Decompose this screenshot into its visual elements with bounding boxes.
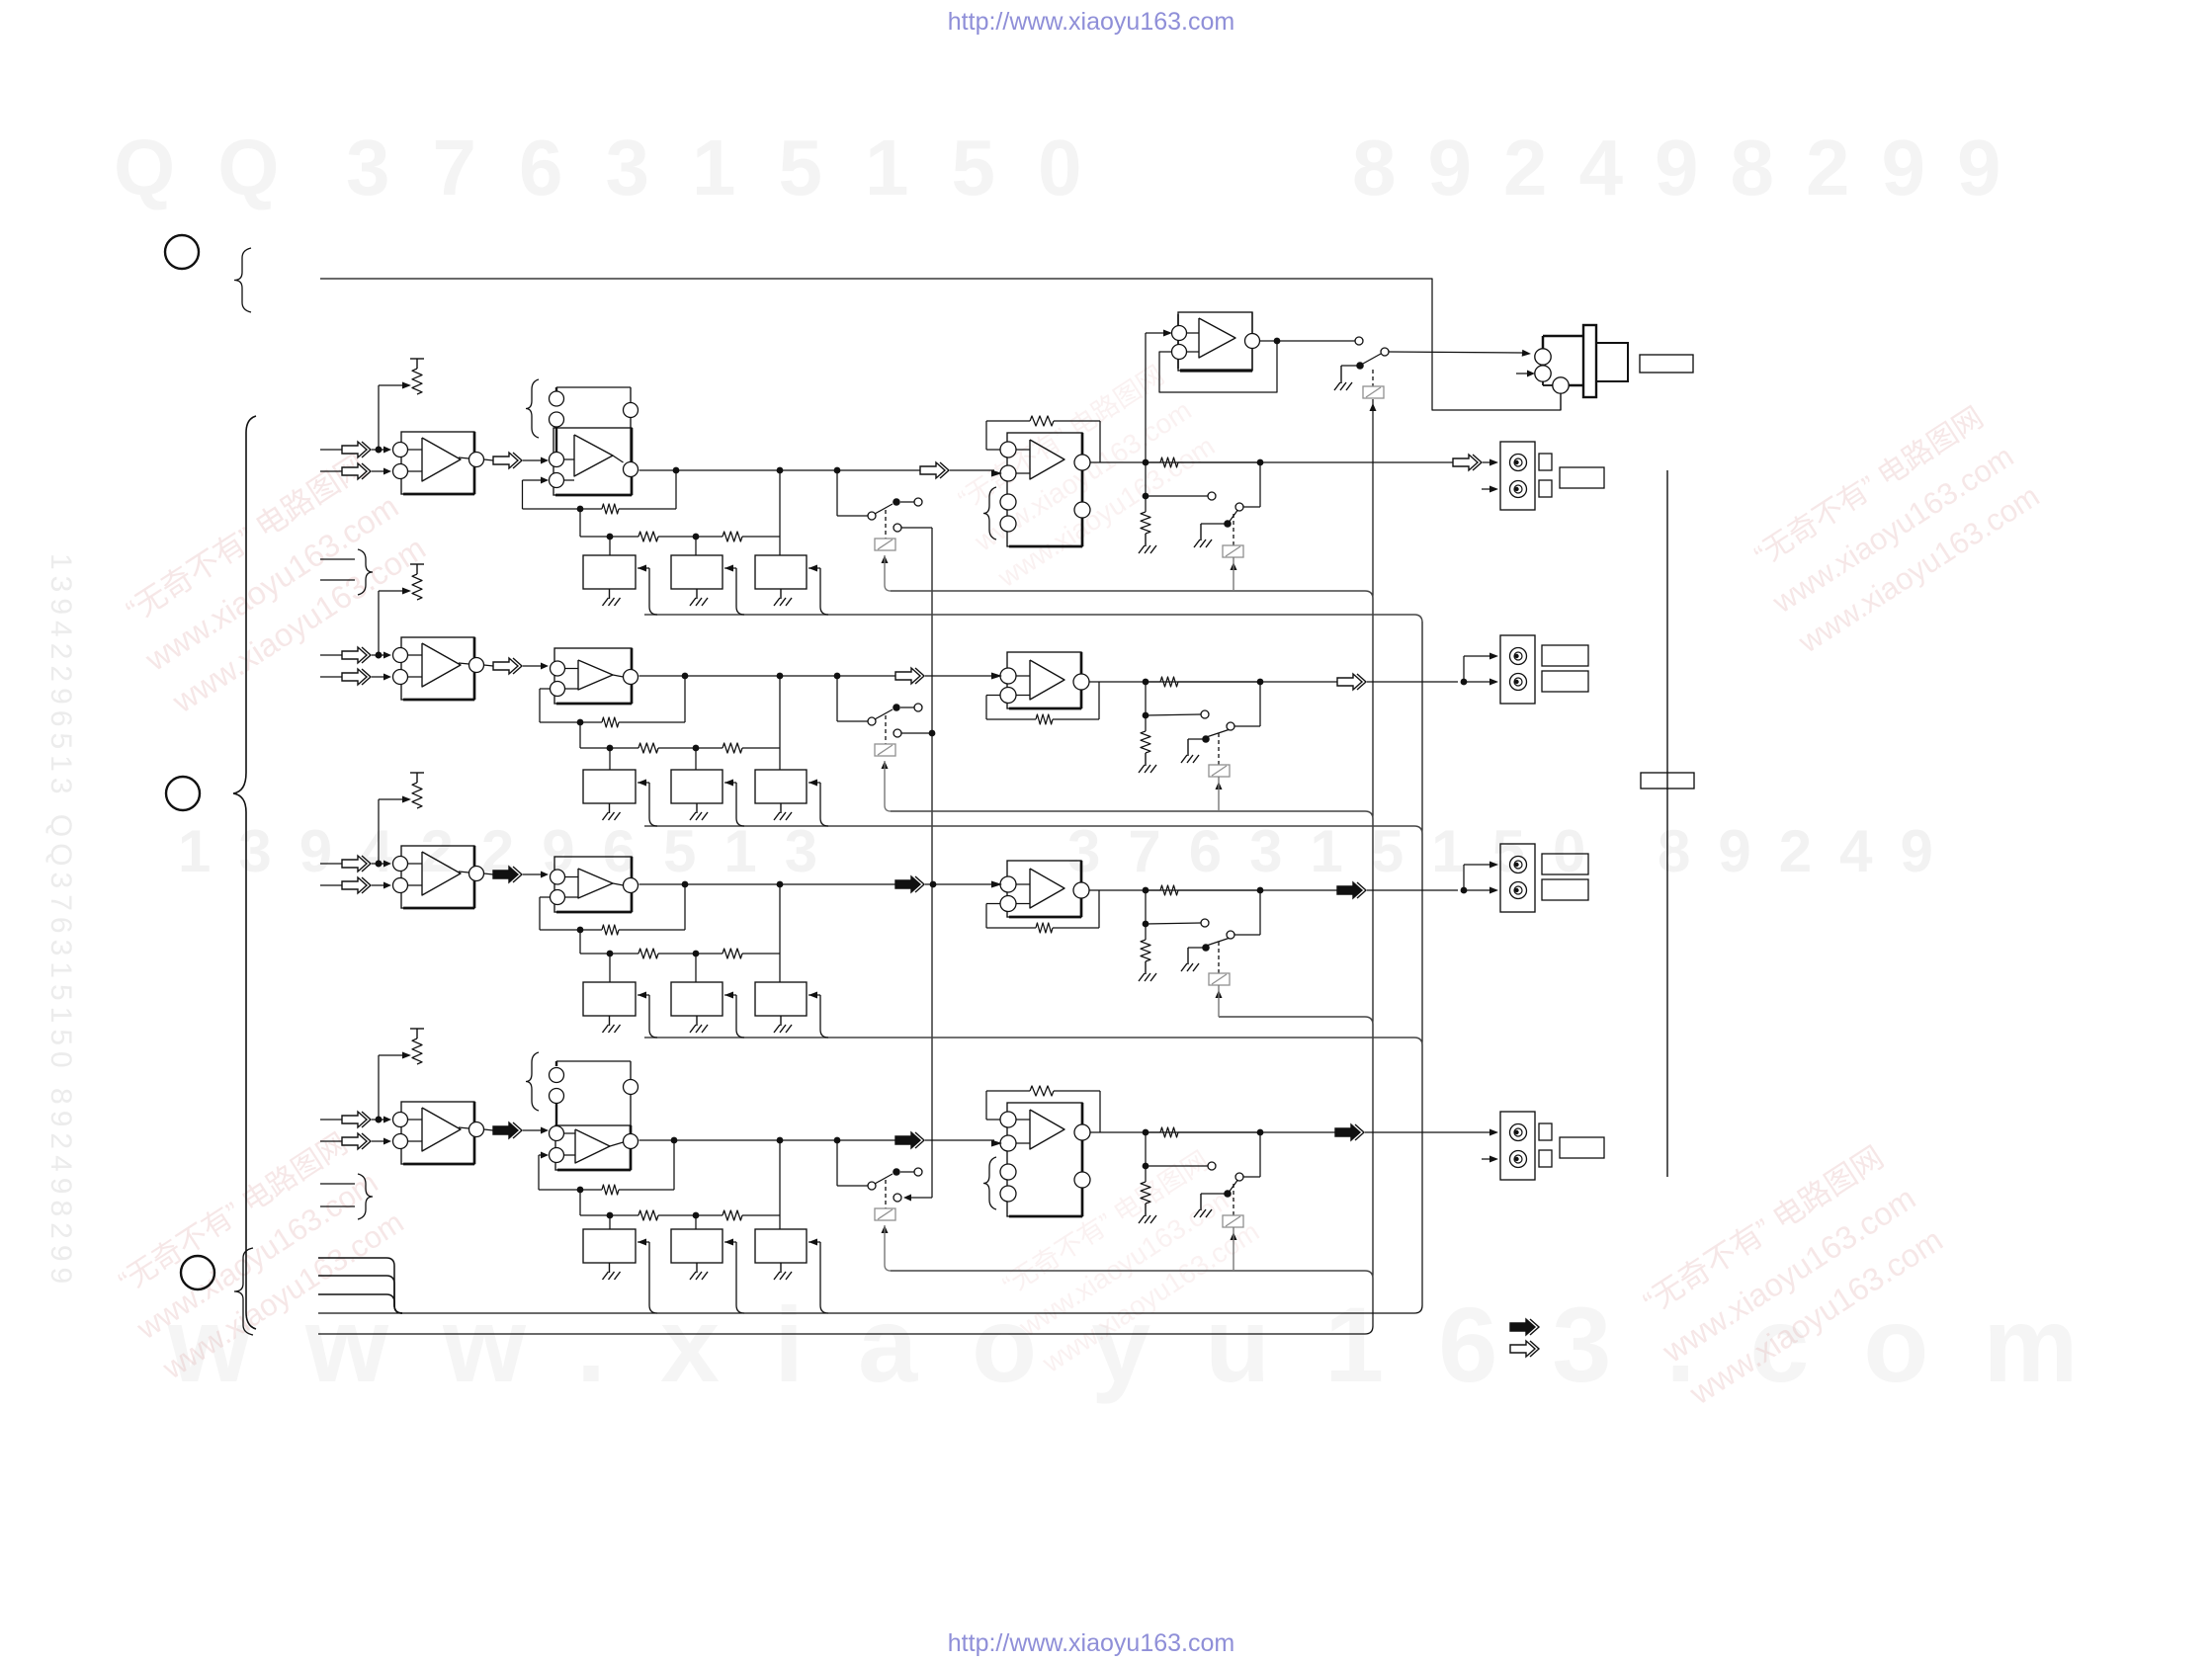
svg-text:QQ: QQ — [114, 124, 321, 211]
svg-text:http://www.xiaoyu163.com: http://www.xiaoyu163.com — [948, 1629, 1234, 1657]
svg-text:892498299: 892498299 — [1352, 124, 2032, 211]
svg-text:13942296513 QQ376315150 8924: 13942296513 QQ376315150 892498299 — [44, 553, 77, 1289]
svg-text:376315150: 376315150 — [346, 124, 1124, 211]
svg-text:376315150 89249: 376315150 89249 — [1067, 818, 1961, 884]
svg-text:http://www.xiaoyu163.com: http://www.xiaoyu163.com — [948, 8, 1234, 36]
